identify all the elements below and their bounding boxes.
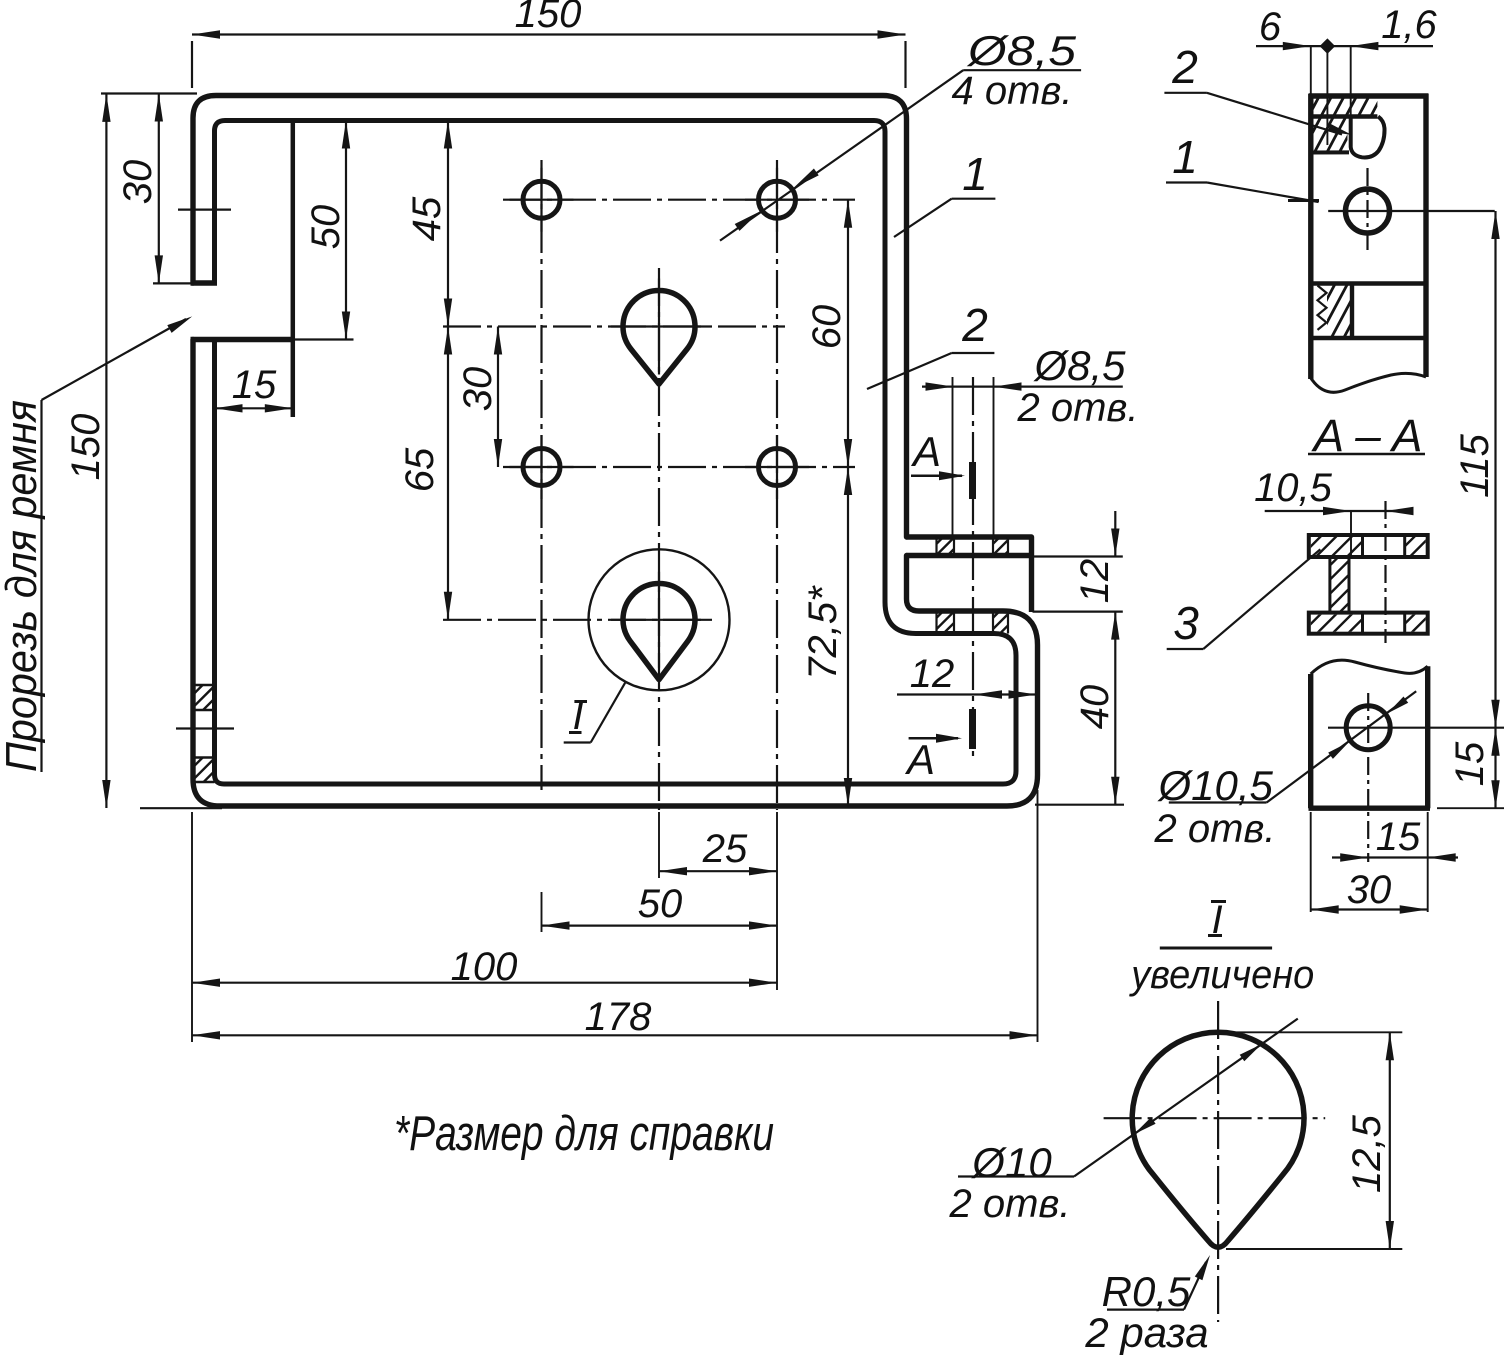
dimension 45 (405, 121, 452, 327)
side view: clamp body and belt slot hook (1293, 85, 1384, 185)
item callout 3 (1167, 549, 1321, 649)
svg-text:Ø8,5: Ø8,5 (1032, 342, 1126, 389)
svg-text:150: 150 (64, 414, 108, 481)
projection tick left of side view (1288, 199, 1319, 202)
dimension 30 top-left (116, 94, 217, 284)
right clamp hatched cut blocks (919, 523, 1026, 648)
svg-text:Прорезь для ремня: Прорезь для ремня (0, 400, 46, 772)
item callout 2 (side view) (1164, 41, 1207, 93)
svg-text:40: 40 (1073, 685, 1117, 730)
teardrop hole 1 (keyhole Ø10) (623, 290, 695, 384)
svg-text:увеличено: увеличено (1128, 953, 1314, 997)
belt slot right (fold) edge (291, 121, 296, 418)
svg-text:*Размер для справки: *Размер для справки (394, 1107, 774, 1161)
hole bottom-right (Ø8,5) (759, 449, 796, 486)
svg-text:2 раза: 2 раза (1084, 1309, 1208, 1355)
item callout 1 (894, 148, 995, 237)
dimension 30 (hole rows) (456, 327, 502, 468)
svg-text:A: A (904, 736, 935, 783)
label R0,5 2 places (1084, 1255, 1210, 1355)
svg-text:1: 1 (962, 148, 988, 200)
svg-text:15: 15 (232, 363, 277, 407)
centerline hole row 1 (503, 199, 855, 201)
svg-text:2 отв.: 2 отв. (1154, 807, 1276, 851)
slot bottom cap (191, 337, 293, 342)
side view: plate edge with belt clamp (1309, 94, 1429, 379)
hole center cross ticks (510, 168, 810, 668)
centerline left hole column (540, 160, 542, 790)
svg-text:1,6: 1,6 (1381, 3, 1437, 47)
svg-text:R0,5: R0,5 (1102, 1268, 1191, 1315)
dimension 150 top (192, 0, 906, 88)
hole top-left (Ø8,5) (523, 181, 560, 218)
item callout 2 (867, 299, 994, 389)
centerline teardrop 2 row (443, 619, 712, 621)
svg-text:45: 45 (405, 196, 449, 241)
svg-text:25: 25 (702, 827, 748, 871)
svg-text:50: 50 (638, 882, 683, 926)
dimension 65 (398, 327, 452, 620)
svg-text:3: 3 (1173, 597, 1199, 649)
centerline teardrop 1 row (443, 325, 785, 327)
svg-text:Ø10: Ø10 (970, 1139, 1052, 1186)
dimension 25 (659, 827, 777, 875)
svg-text:Ø10,5: Ø10,5 (1156, 762, 1273, 809)
svg-text:30: 30 (1347, 868, 1392, 912)
bottom view: clamp plate (1309, 666, 1431, 808)
svg-text:Ø8,5: Ø8,5 (966, 27, 1077, 74)
A-A: clamp web (1283, 529, 1395, 640)
teardrop hole 2 (keyhole Ø10) (623, 583, 695, 679)
svg-text:30: 30 (456, 367, 500, 412)
detail I: enlarged teardrop hole (1132, 1032, 1304, 1247)
left tab hole centerline tick (178, 209, 231, 211)
A-A: clamp H-section, top bar (1285, 495, 1437, 596)
detail I reference circle (589, 549, 730, 690)
detail I callout on main view (564, 683, 625, 743)
section A-A label (1308, 410, 1425, 461)
A-A: clamp H-section, bottom bar (1286, 572, 1438, 672)
dimension 60 (805, 200, 852, 467)
svg-text:50: 50 (304, 205, 348, 250)
svg-text:A: A (910, 428, 941, 475)
svg-text:100: 100 (451, 945, 518, 989)
detail I title (1128, 898, 1314, 997)
svg-text:150: 150 (515, 0, 582, 36)
dimension Ø10 2 holes (949, 1019, 1298, 1226)
svg-text:12,5: 12,5 (1345, 1114, 1389, 1193)
dimension 50 top-left (293, 121, 354, 340)
centerline hole row 2 (503, 466, 855, 468)
dimension Ø8,5 2 holes (clamp) (922, 342, 1138, 537)
svg-text:178: 178 (585, 995, 652, 1039)
svg-text:15: 15 (1376, 815, 1421, 859)
section marker A (upper) (910, 428, 973, 499)
A-A: hole centerline (1384, 501, 1386, 643)
dimension 30 (bottom view) (1311, 812, 1428, 914)
side view: lower clamp band lines (1311, 281, 1426, 285)
svg-text:2: 2 (1171, 41, 1198, 93)
dimension 15 (horizontal, bottom view) (1332, 815, 1458, 862)
right flange clamp block (907, 537, 1032, 612)
svg-text:30: 30 (116, 160, 160, 205)
dimension 115 (1453, 211, 1500, 728)
bottom view: hole Ø10,5 (1346, 706, 1390, 750)
svg-text:2 отв.: 2 отв. (1017, 386, 1139, 430)
svg-text:12: 12 (910, 652, 955, 696)
item 2 leader arrow end (1328, 124, 1352, 135)
dimension 6 / 1,6 (top of side view) (1256, 3, 1438, 145)
svg-text:115: 115 (1453, 433, 1497, 498)
dimension 72,5* (801, 467, 852, 806)
centerline teardrop column (658, 268, 660, 810)
dimension 100 (192, 945, 777, 989)
svg-text:1: 1 (1172, 131, 1198, 183)
side view: clamp top bar (hatched) (1288, 34, 1401, 182)
centerline right clamp hole column (972, 377, 974, 762)
svg-text:60: 60 (805, 305, 849, 350)
side view: break line (bottom) (1311, 373, 1426, 392)
dimension 40 (right) (1035, 612, 1124, 805)
section marker A (lower) (904, 709, 973, 783)
bottom view: break line (top) (1311, 660, 1428, 674)
hole bottom-left (Ø8,5) (523, 449, 560, 486)
svg-text:6: 6 (1259, 5, 1282, 49)
left clamp hole centerline tick (176, 727, 234, 729)
svg-text:4 отв.: 4 отв. (952, 69, 1073, 113)
side view: toothed clamp block (1299, 254, 1381, 368)
svg-text:72,5*: 72,5* (801, 585, 845, 680)
leader Ø10,5 2 holes (1154, 691, 1417, 851)
dimension 15 (slot depth) (215, 363, 293, 413)
item callout 1 (side view) (1166, 131, 1319, 202)
svg-text:15: 15 (1448, 741, 1492, 786)
svg-text:2 отв.: 2 отв. (949, 1182, 1071, 1226)
dimension 12,5 (1218, 1032, 1402, 1249)
dimension 178 (192, 995, 1038, 1040)
dimension 150 left (64, 94, 222, 809)
dimension 15 (vertical, bottom view) (1437, 728, 1504, 809)
centerline right hole column (776, 160, 778, 810)
side view: hole (1346, 189, 1390, 233)
leader Ø8,5 4 holes (720, 27, 1081, 241)
dimension 50 bottom (542, 882, 778, 930)
dimension 10,5 (1254, 466, 1413, 558)
main view: inner contour (bent flange lines) (215, 121, 1017, 785)
label: slot for belt (rotated) (0, 316, 192, 772)
main view: bracket plate outline (outer contour) (193, 96, 1038, 807)
svg-text:10,5: 10,5 (1254, 466, 1333, 510)
hole top-right (Ø8,5) (759, 181, 796, 218)
left flange clamp section bars (hatched) (175, 669, 231, 797)
extension lines below plate (192, 790, 1038, 1042)
slot top cap (191, 280, 218, 285)
detail I centerlines (1217, 1001, 1219, 1322)
svg-text:65: 65 (398, 447, 442, 492)
dimension 12 (clamp bar height, right) (1033, 511, 1123, 612)
svg-text:12: 12 (1073, 559, 1117, 604)
dimension 12 (step offset) (897, 652, 1037, 699)
svg-text:2: 2 (961, 299, 988, 351)
